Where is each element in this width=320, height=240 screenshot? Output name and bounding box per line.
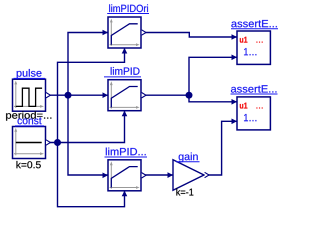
connector gain.u input arrow	[168, 172, 174, 178]
wire node B down to limPID2.u_m	[58, 143, 125, 207]
label assertE... 2	[231, 85, 278, 94]
connector gain.y output chevron	[205, 172, 209, 177]
connector assertEqu2.u1 input arrow	[232, 99, 238, 105]
wire node C up to assertEqu1.u2	[189, 57, 237, 95]
junction node C	[186, 92, 193, 99]
label assertE... 1	[231, 20, 278, 29]
block assertEquality 1	[237, 31, 270, 64]
connector limPIDOri.y output chevron	[142, 30, 146, 35]
label limPID...	[105, 148, 148, 157]
connector limPID2.y output chevron	[142, 173, 146, 178]
connector assertEqu1.u2 input arrow	[232, 55, 238, 61]
wire const.y to limPID.u_m	[46, 111, 125, 142]
wire node A up to limPIDOri.u_s	[68, 33, 108, 96]
connector limPIDOri.u_m input arrow	[122, 48, 128, 54]
wire pulse.y to limPID.u_s	[46, 94, 108, 96]
connector limPIDOri.u_s input arrow	[103, 30, 109, 36]
block const (source)	[13, 127, 46, 159]
wire limPID2.y to gain.u	[141, 174, 173, 176]
connector const.y output chevron	[46, 140, 50, 145]
op block limPID2	[108, 160, 141, 191]
block assertEquality 2	[237, 97, 270, 130]
wire node A down to limPID2.u_s	[68, 95, 108, 175]
label limPIDOri	[107, 4, 149, 13]
connector assertEqu1.u1 input arrow	[232, 34, 238, 40]
label limPID	[104, 67, 141, 77]
connector assertEqu2.u2 input arrow	[232, 119, 238, 125]
wire limPID.y to node C	[141, 94, 189, 96]
connector limPID2.u_s input arrow	[103, 173, 109, 179]
connector limPID.y output chevron	[142, 93, 146, 98]
junction node B	[54, 139, 61, 146]
connector pulse.y output chevron	[46, 93, 50, 98]
connector limPID.u_s input arrow	[103, 92, 109, 98]
wire limPIDOri.y to assertEqu1.u1	[141, 33, 237, 38]
label pulse	[14, 69, 46, 79]
connector limPID.u_m input arrow	[122, 111, 128, 117]
op block limPID	[108, 80, 141, 111]
value label k=-1	[176, 188, 193, 195]
label gain	[176, 152, 200, 162]
op block limPIDOri	[108, 17, 141, 48]
wire gain.y to assertEqu2.u2	[204, 121, 237, 175]
wire node C to assertEqu2.u1	[189, 95, 237, 102]
connector limPID2.u_m input arrow	[122, 191, 128, 197]
value label k=0.5	[16, 161, 40, 168]
junction node A	[65, 92, 72, 99]
label const	[15, 117, 44, 125]
value label period=...	[6, 111, 51, 120]
wire node B up to limPIDOri.u_m	[58, 49, 125, 143]
block pulse (source)	[13, 79, 46, 111]
gain block (triangle)	[173, 160, 204, 191]
